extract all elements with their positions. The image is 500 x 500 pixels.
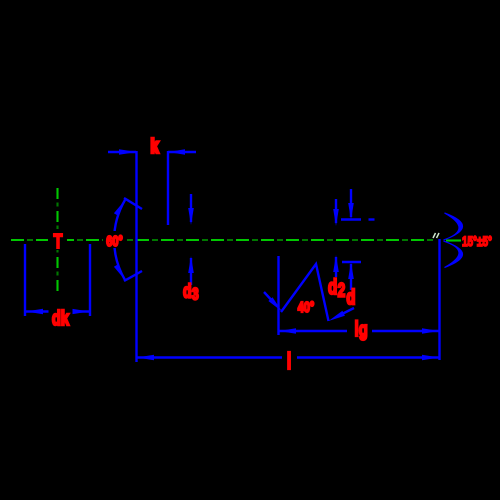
svg-text:15°±5°: 15°±5° <box>462 233 492 249</box>
svg-text:lg: lg <box>355 316 368 340</box>
svg-text:T: T <box>53 230 62 253</box>
svg-text:l: l <box>287 349 292 374</box>
svg-text:dk: dk <box>52 307 69 330</box>
svg-text:d2: d2 <box>328 274 345 301</box>
svg-text:d: d <box>347 286 356 309</box>
svg-text:k: k <box>151 135 159 157</box>
svg-text:40°: 40° <box>298 298 315 315</box>
svg-text:60°: 60° <box>106 232 123 249</box>
